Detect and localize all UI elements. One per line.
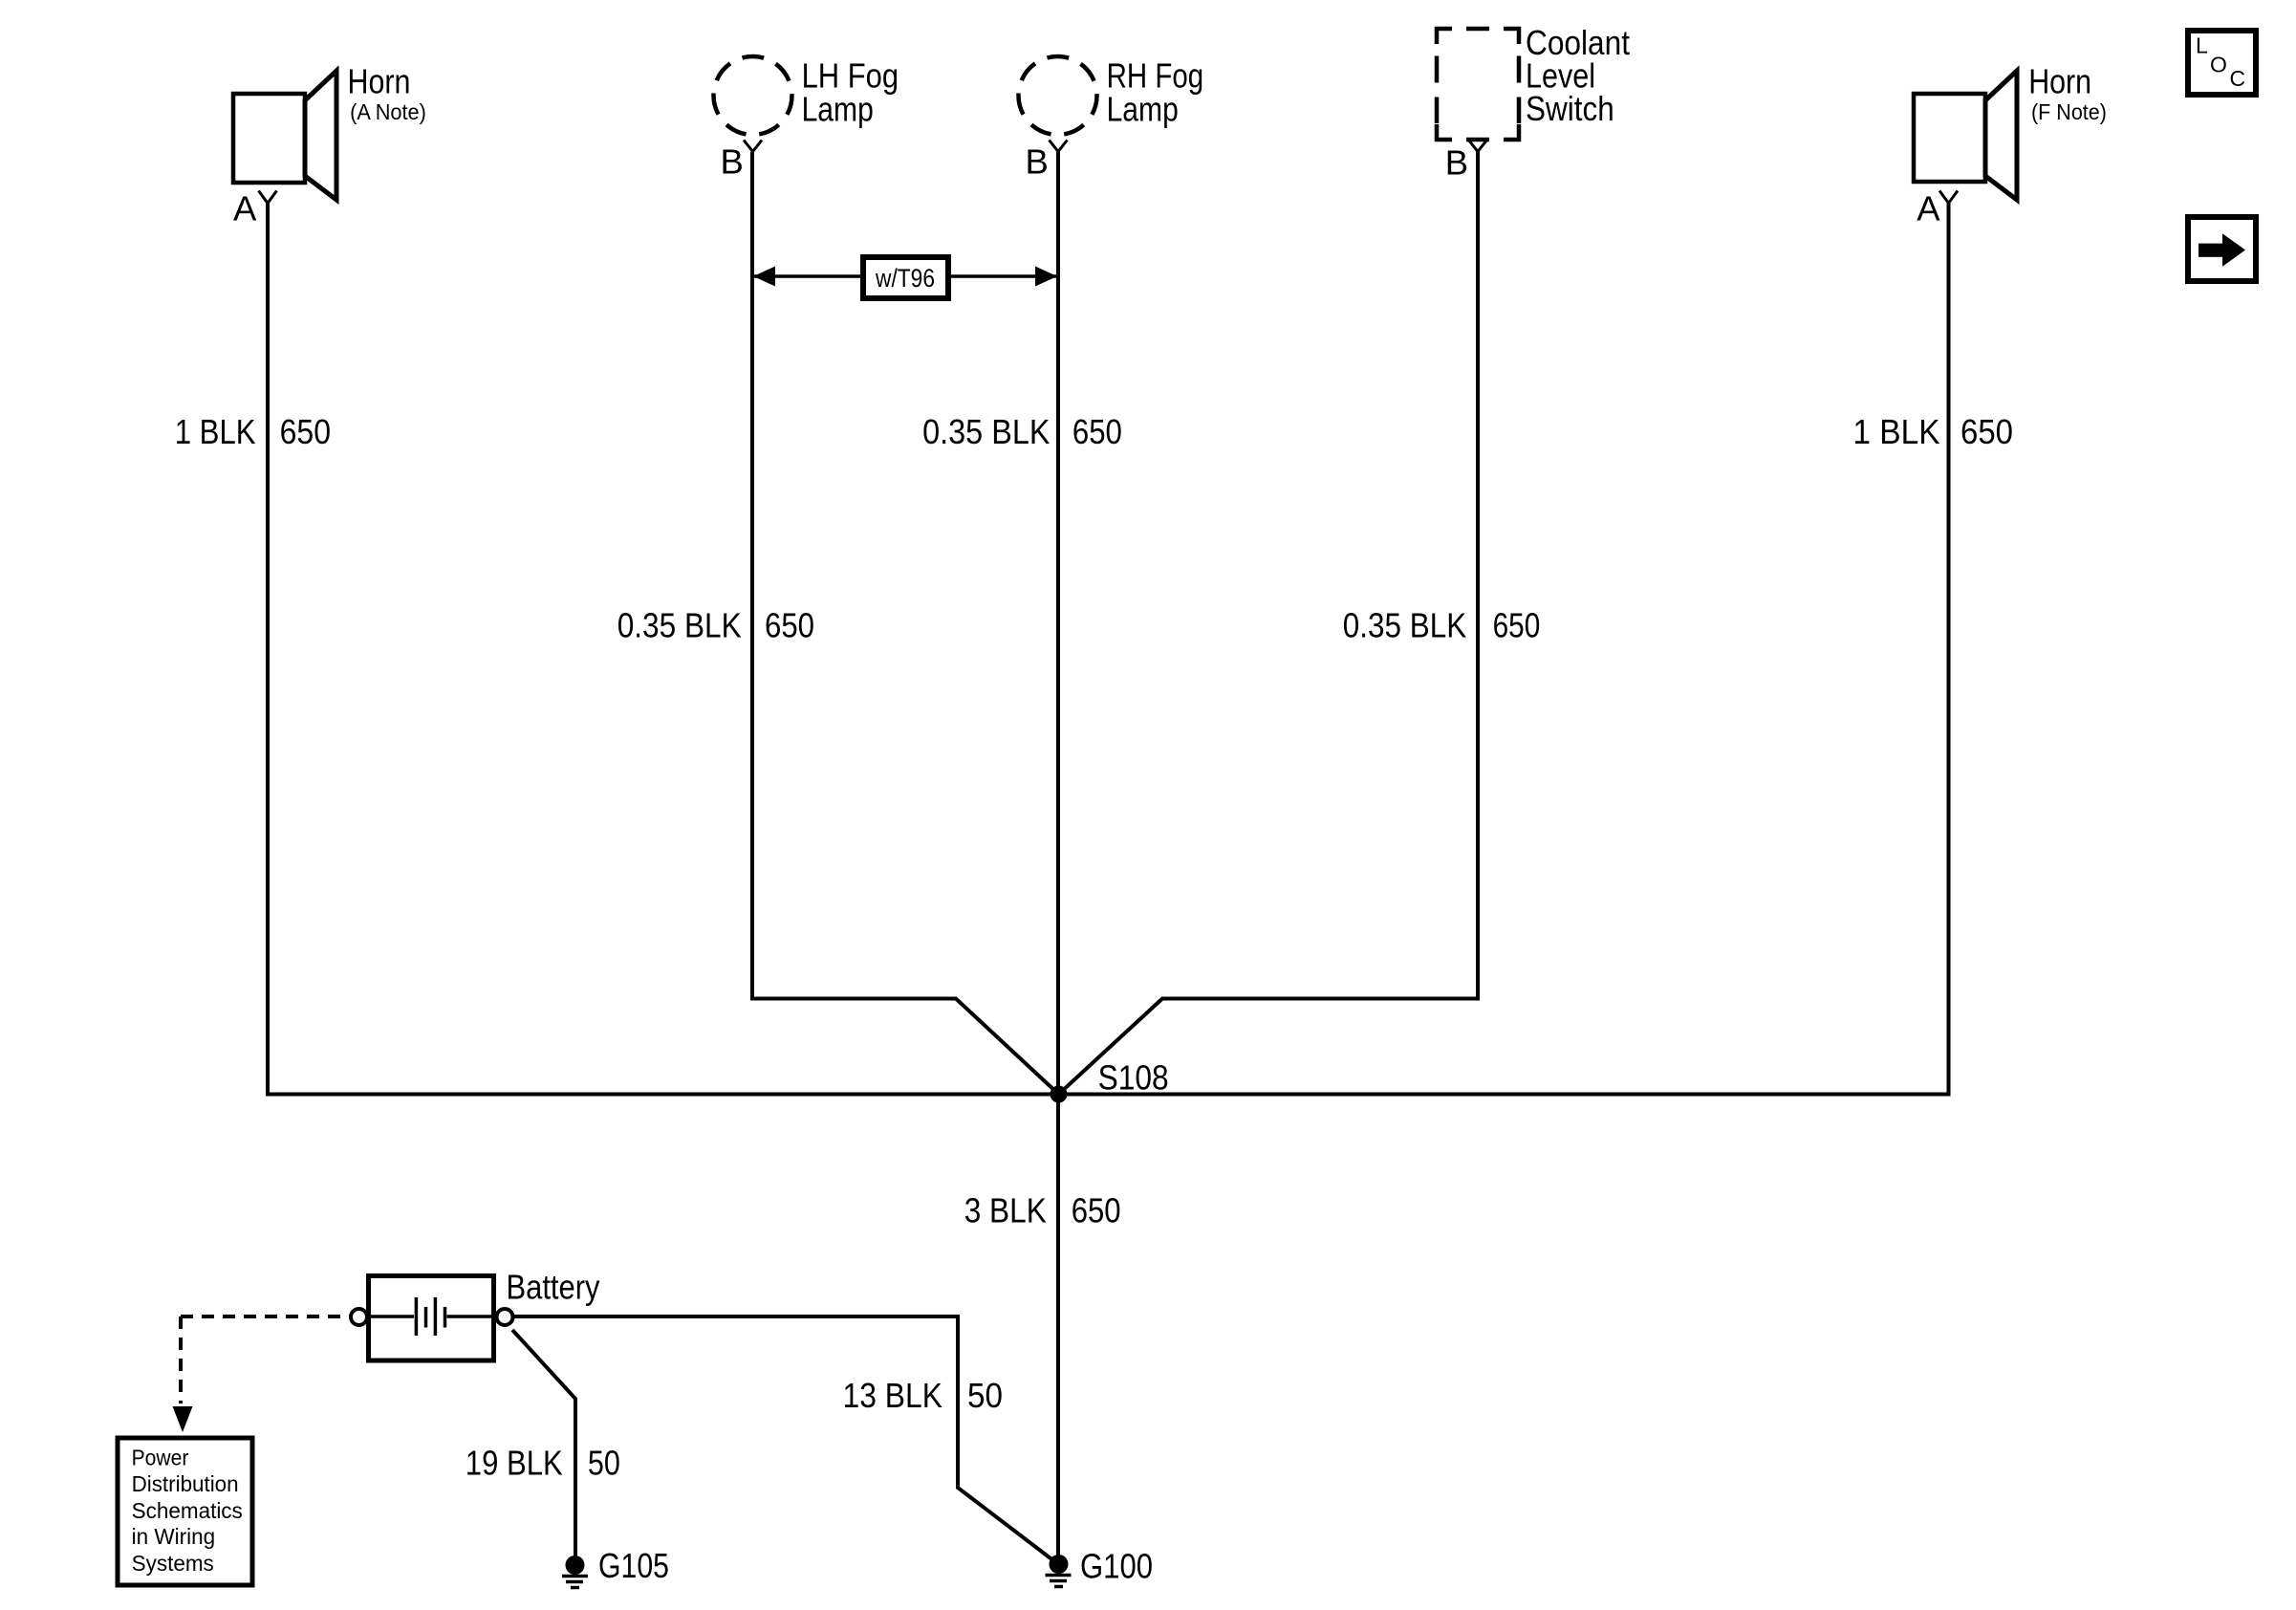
power distribution schematics reference box xyxy=(118,1438,252,1585)
svg-text:(A Note): (A Note) xyxy=(350,99,426,124)
svg-text:Horn: Horn xyxy=(2028,62,2091,101)
next-page arrow box xyxy=(2188,217,2256,281)
coolant level switch (dashed box) xyxy=(1437,29,1519,140)
svg-text:Lamp: Lamp xyxy=(1107,89,1179,128)
svg-text:Horn: Horn xyxy=(348,62,411,101)
wire: battery positive feed right and down to G100 xyxy=(513,1316,1059,1564)
w/T96 range arrow xyxy=(753,257,1057,298)
wire: right horn down to main splice bus xyxy=(1947,204,1951,1097)
battery B+ symbol xyxy=(369,1276,494,1361)
splice S108 junction dot xyxy=(1051,1086,1068,1103)
svg-text:0.35 BLK: 0.35 BLK xyxy=(617,606,742,645)
svg-text:1 BLK: 1 BLK xyxy=(175,412,256,451)
wire: left horn down to main splice bus xyxy=(266,204,270,1097)
ground G100 xyxy=(1046,1547,1154,1587)
ground G105 xyxy=(562,1546,669,1588)
svg-text:B: B xyxy=(1025,142,1048,182)
svg-text:in Wiring: in Wiring xyxy=(132,1524,216,1549)
svg-text:0.35 BLK: 0.35 BLK xyxy=(1343,606,1466,645)
svg-text:A: A xyxy=(1917,189,1940,228)
svg-text:650: 650 xyxy=(280,412,331,451)
svg-text:650: 650 xyxy=(1072,412,1122,451)
LH fog lamp (dashed circle) xyxy=(714,56,792,135)
svg-text:Schematics: Schematics xyxy=(132,1498,243,1523)
svg-text:L: L xyxy=(2196,33,2208,58)
svg-text:S108: S108 xyxy=(1098,1058,1169,1098)
svg-text:650: 650 xyxy=(1493,606,1541,645)
wire: RH fog lamp straight down through S108 to G100 xyxy=(1056,152,1060,1565)
svg-text:13 BLK: 13 BLK xyxy=(843,1376,943,1415)
svg-text:19 BLK: 19 BLK xyxy=(466,1444,563,1483)
svg-text:C: C xyxy=(2230,66,2246,91)
battery left terminal xyxy=(351,1309,367,1325)
RH fog lamp (dashed circle) xyxy=(1019,56,1097,135)
wire: LH fog lamp down, right, diagonal to splice S108 xyxy=(752,152,1059,1095)
dashed reference wire to power distribution xyxy=(181,1315,351,1318)
svg-text:650: 650 xyxy=(765,606,814,645)
svg-text:Power: Power xyxy=(132,1445,189,1469)
battery right terminal xyxy=(497,1309,513,1325)
horn (F Note) symbol xyxy=(1914,71,2017,200)
svg-text:Distribution: Distribution xyxy=(132,1471,239,1496)
svg-text:50: 50 xyxy=(967,1376,1003,1415)
svg-text:G105: G105 xyxy=(598,1546,669,1585)
svg-text:650: 650 xyxy=(1960,412,2013,451)
svg-text:3 BLK: 3 BLK xyxy=(964,1191,1047,1230)
wire: battery to G105 xyxy=(512,1330,575,1565)
svg-text:1 BLK: 1 BLK xyxy=(1852,412,1939,451)
svg-text:O: O xyxy=(2210,53,2227,77)
svg-text:Battery: Battery xyxy=(507,1268,601,1307)
svg-text:w/T96: w/T96 xyxy=(875,264,935,293)
wire: coolant switch down, left, diagonal to splice S108 xyxy=(1059,152,1479,1095)
svg-text:0.35 BLK: 0.35 BLK xyxy=(922,412,1050,451)
svg-text:G100: G100 xyxy=(1080,1547,1153,1586)
reference arrowhead xyxy=(173,1406,193,1432)
horn (A Note) symbol xyxy=(233,71,336,200)
svg-text:Lamp: Lamp xyxy=(802,89,874,128)
svg-text:Systems: Systems xyxy=(132,1551,214,1576)
svg-text:Switch: Switch xyxy=(1526,89,1614,128)
svg-text:B: B xyxy=(720,142,743,182)
svg-text:650: 650 xyxy=(1072,1191,1121,1230)
svg-text:A: A xyxy=(233,189,257,228)
svg-text:50: 50 xyxy=(588,1444,620,1483)
LOC legend box xyxy=(2188,31,2256,95)
wire: main horizontal splice bus xyxy=(266,1093,1951,1097)
svg-text:(F Note): (F Note) xyxy=(2031,99,2107,124)
svg-text:B: B xyxy=(1445,143,1468,183)
